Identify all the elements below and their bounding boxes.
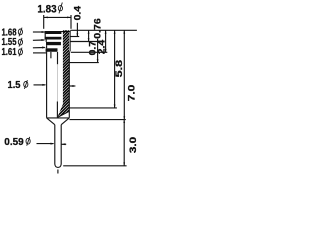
dim 3.0 vertical <box>123 120 125 166</box>
cap top edge full width <box>45 31 71 33</box>
dim 7.0 vertical <box>123 30 125 119</box>
phi symbol for 1.83 <box>58 3 62 14</box>
right arrow 0.59 dia <box>62 143 67 145</box>
ext line 0.4 bottom <box>70 36 79 38</box>
leader 1.5 <box>34 84 46 86</box>
pin left edge <box>54 125 56 164</box>
svg-text:0.59: 0.59 <box>4 137 24 148</box>
label 0.4 rotated <box>73 5 84 20</box>
hole left edge faint <box>57 64 59 101</box>
tip centerline tick <box>57 170 59 174</box>
label 1.68 dia <box>2 27 17 38</box>
leader 1.68 <box>33 31 45 33</box>
pin right edge <box>60 125 62 164</box>
svg-text:3.0: 3.0 <box>128 137 139 153</box>
phi 1.68 <box>18 28 22 37</box>
hole left edge dark upper <box>57 52 59 64</box>
dimension text 1.83 dia <box>37 4 56 16</box>
taper left <box>47 118 55 125</box>
head flange bar3 <box>46 42 61 45</box>
groove left edge <box>45 40 47 42</box>
svg-text:0.4: 0.4 <box>73 5 84 20</box>
ext line 0.7 bottom <box>70 62 99 64</box>
phi 1.61 <box>18 48 22 57</box>
head flange bar4 <box>46 48 58 51</box>
body interior shelf <box>47 117 70 119</box>
svg-text:2.4: 2.4 <box>97 39 108 54</box>
hole cone left edge <box>56 102 58 118</box>
head base line <box>46 50 58 52</box>
svg-text:5.8: 5.8 <box>114 59 125 77</box>
arrowhead 1.83 right <box>67 17 71 19</box>
head left edge upper <box>44 31 46 39</box>
pin rounded tip <box>55 164 61 167</box>
label 0.59 dia <box>4 137 24 148</box>
arrowhead 1.83 left <box>44 17 48 19</box>
dim 0.7 vertical <box>97 39 99 63</box>
svg-text:7.0: 7.0 <box>126 85 137 102</box>
label 1.61 dia <box>2 47 17 58</box>
label 1.5 dia <box>8 80 21 91</box>
dim 0.4 vertical <box>76 23 78 37</box>
label 2.4 rotated <box>97 39 108 54</box>
label 1.55 dia <box>2 37 17 48</box>
groove left edge 2 <box>46 45 48 48</box>
leader 0.59 <box>37 143 54 145</box>
svg-text:1.83: 1.83 <box>37 4 56 16</box>
dimension line 1.83 <box>44 16 72 18</box>
phi 0.59 <box>26 137 30 146</box>
right arrow 1.5 dia <box>70 85 76 87</box>
counterbore edge <box>50 52 52 58</box>
ext line bottom pin tip <box>63 165 126 167</box>
svg-text:0.76: 0.76 <box>92 18 103 39</box>
head flange bar1 cap <box>45 31 62 34</box>
phi 1.55 <box>18 38 22 47</box>
ext line 0.76 bottom <box>70 41 98 43</box>
hole bottom slant <box>57 111 69 117</box>
top reference extension line <box>71 29 137 31</box>
phi 1.5 <box>24 80 28 89</box>
body outline left <box>46 51 48 117</box>
ext line head bottom <box>71 51 108 53</box>
dim 5.8 vertical <box>114 30 116 108</box>
witness line left 1.83 <box>43 15 45 29</box>
svg-text:1.5: 1.5 <box>8 80 21 91</box>
head outer right edge <box>69 30 71 51</box>
ext line 5.8 bottom <box>70 107 117 109</box>
label 5.8 rotated <box>114 59 125 77</box>
head flange bar2 <box>45 37 62 40</box>
label 0.7 rotated <box>88 41 99 56</box>
dim 0.76 vertical <box>88 30 90 41</box>
label 7.0 rotated <box>126 85 137 102</box>
label 0.76 rotated <box>92 18 103 39</box>
svg-text:1.61: 1.61 <box>2 47 17 58</box>
leader 1.61 <box>33 47 45 49</box>
witness line right 1.83 <box>70 15 72 29</box>
body outline right <box>68 51 70 117</box>
head base extension left <box>33 52 47 54</box>
leader 1.55 <box>33 39 44 41</box>
dim 2.4 vertical <box>105 30 107 52</box>
ext line 7.0 bottom <box>70 119 126 121</box>
taper right <box>61 118 69 125</box>
label 3.0 rotated <box>128 137 139 153</box>
